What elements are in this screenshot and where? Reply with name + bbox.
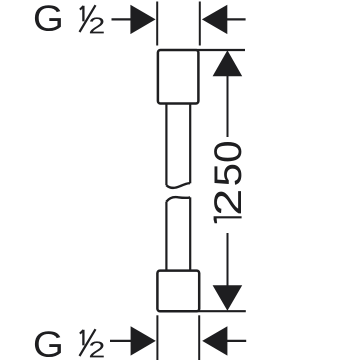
dimension arrowhead up <box>213 50 243 76</box>
leader arrow shaft bottom-left <box>110 340 133 342</box>
thread label G 1/2 bottom <box>35 331 104 357</box>
leader arrow shaft bottom-right <box>227 340 247 342</box>
extension line bottom-left <box>156 315 158 360</box>
leader arrowhead bottom-right pointing left <box>202 326 227 355</box>
dimension value 250 part (rotated) <box>214 142 241 213</box>
dimension value digit 1 (rotated, drawn) <box>214 216 242 223</box>
dimension extension line from bottom fitting <box>196 310 246 312</box>
hose fitting top (conical nut) <box>158 50 199 104</box>
extension line top-left <box>156 2 158 46</box>
hose break squiggle lower <box>166 197 190 202</box>
hose tube lower segment right wall <box>189 197 191 271</box>
extension line bottom-right <box>198 315 200 360</box>
fraction slash bottom <box>80 329 96 356</box>
dimension line upper segment <box>227 76 229 138</box>
fraction numerator 1 top <box>80 6 84 21</box>
thread label G 1/2 top <box>35 5 104 33</box>
dimension arrowhead down <box>213 285 243 311</box>
leader arrow shaft top-right <box>227 18 246 20</box>
leader arrowhead top-right pointing left <box>202 5 227 34</box>
hose tube upper segment left wall <box>165 104 167 186</box>
leader arrowhead top-left pointing right <box>130 5 155 34</box>
dimension extension line from top fitting <box>196 49 245 51</box>
hose break squiggle upper <box>166 183 190 188</box>
dimension line lower segment <box>227 233 229 286</box>
leader arrow shaft top-left <box>112 18 134 20</box>
leader arrowhead bottom-left pointing right <box>131 326 156 355</box>
hose tube lower segment left wall <box>165 202 167 271</box>
hose fitting bottom (nut) <box>157 271 199 312</box>
extension line top-right <box>199 2 201 46</box>
hose tube upper segment right wall <box>189 104 191 184</box>
fraction numerator 1 bottom <box>80 330 84 346</box>
fraction slash top <box>80 5 96 32</box>
